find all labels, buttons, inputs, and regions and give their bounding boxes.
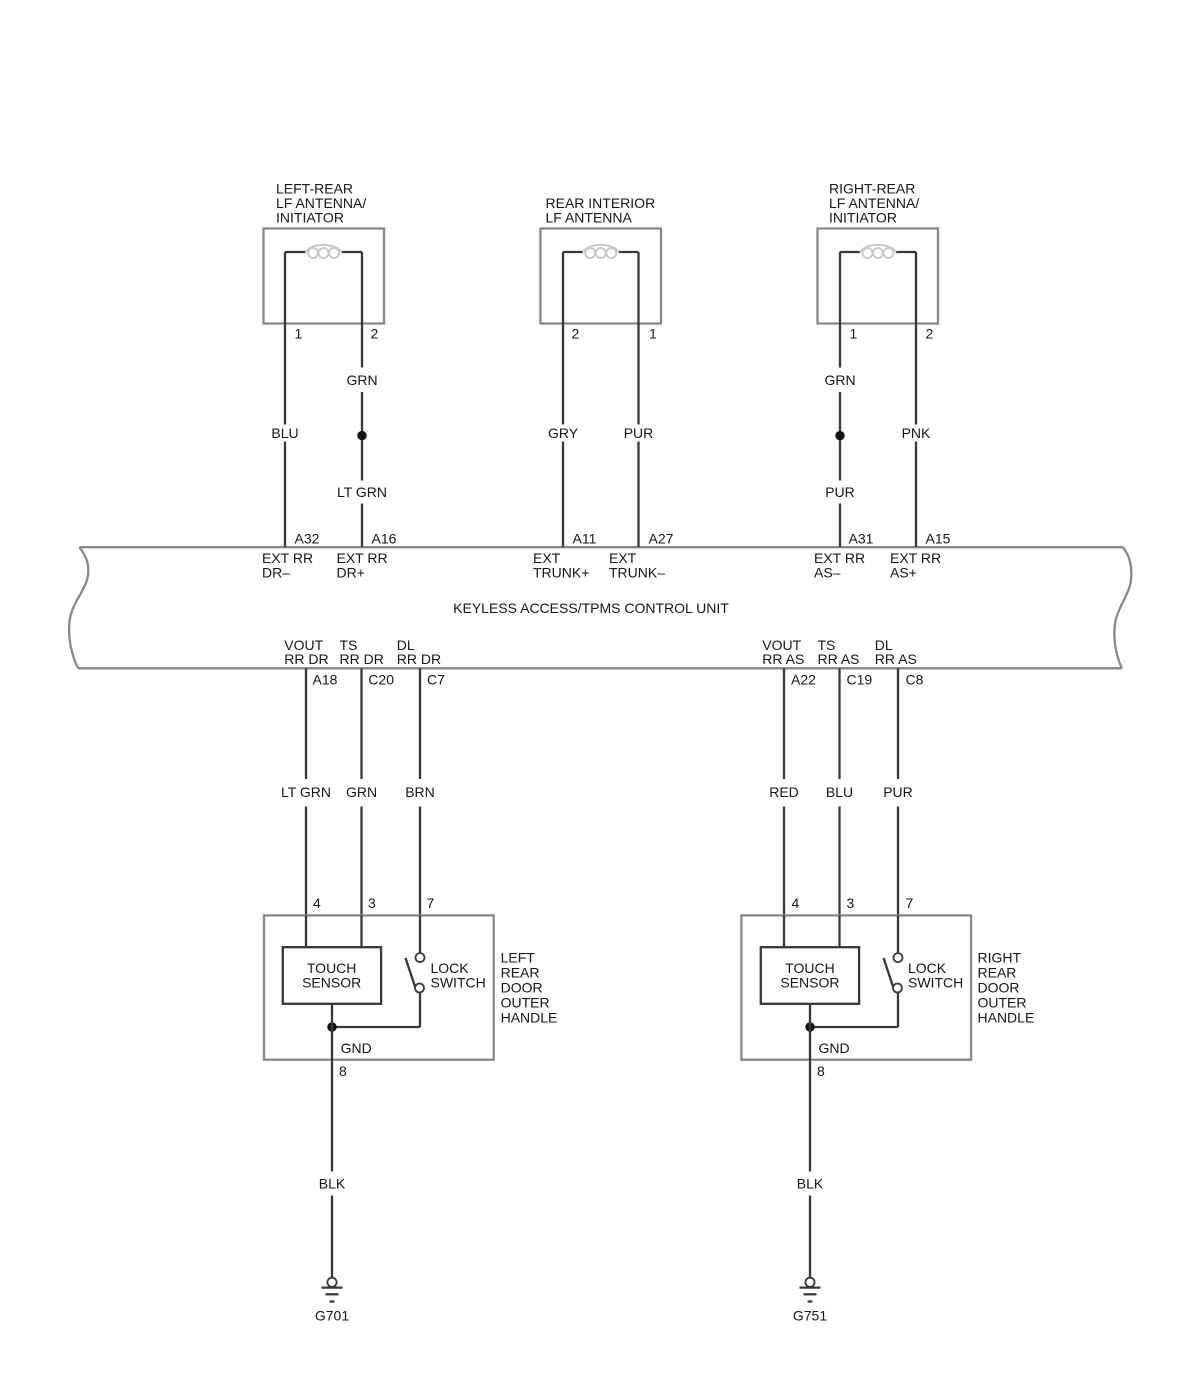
svg-text:C19: C19: [847, 672, 873, 688]
svg-text:BLK: BLK: [319, 1176, 346, 1192]
svg-text:PNK: PNK: [902, 425, 931, 441]
svg-text:AS+: AS+: [890, 565, 917, 581]
svg-text:1: 1: [295, 326, 303, 342]
svg-text:KEYLESS ACCESS/TPMS CONTROL UN: KEYLESS ACCESS/TPMS CONTROL UNIT: [453, 600, 729, 616]
svg-text:C8: C8: [906, 672, 924, 688]
svg-text:REAR: REAR: [501, 965, 540, 981]
svg-text:BLK: BLK: [797, 1176, 824, 1192]
svg-text:4: 4: [792, 895, 800, 911]
svg-text:RR DR: RR DR: [284, 651, 328, 667]
svg-text:SENSOR: SENSOR: [780, 975, 839, 991]
svg-text:DOOR: DOOR: [978, 980, 1020, 996]
svg-text:A11: A11: [573, 531, 597, 547]
svg-text:1: 1: [649, 326, 657, 342]
svg-text:A32: A32: [295, 531, 320, 547]
svg-text:HANDLE: HANDLE: [501, 1010, 558, 1026]
svg-text:4: 4: [313, 895, 321, 911]
svg-text:2: 2: [371, 326, 379, 342]
svg-text:RR AS: RR AS: [762, 651, 804, 667]
svg-text:SENSOR: SENSOR: [302, 975, 361, 991]
svg-text:GRN: GRN: [346, 372, 377, 388]
svg-text:OUTER: OUTER: [501, 995, 550, 1011]
svg-text:SWITCH: SWITCH: [431, 975, 486, 991]
svg-text:7: 7: [906, 895, 914, 911]
svg-text:A22: A22: [791, 672, 816, 688]
svg-text:BRN: BRN: [405, 784, 435, 800]
svg-text:C7: C7: [427, 672, 445, 688]
svg-text:A16: A16: [372, 531, 397, 547]
svg-text:A31: A31: [849, 531, 874, 547]
svg-text:8: 8: [817, 1063, 825, 1079]
svg-text:REAR: REAR: [978, 965, 1017, 981]
svg-text:PUR: PUR: [624, 425, 654, 441]
svg-text:LT GRN: LT GRN: [337, 484, 387, 500]
svg-text:PUR: PUR: [883, 784, 913, 800]
svg-text:RIGHT: RIGHT: [978, 950, 1022, 966]
svg-text:A18: A18: [313, 672, 338, 688]
svg-text:OUTER: OUTER: [978, 995, 1027, 1011]
svg-text:3: 3: [368, 895, 376, 911]
svg-text:PUR: PUR: [825, 484, 855, 500]
svg-text:LT GRN: LT GRN: [281, 784, 331, 800]
svg-text:DOOR: DOOR: [501, 980, 543, 996]
svg-text:INITIATOR: INITIATOR: [829, 210, 897, 226]
svg-text:GND: GND: [341, 1040, 372, 1056]
svg-text:G701: G701: [315, 1308, 349, 1324]
svg-text:1: 1: [850, 326, 858, 342]
svg-text:DR+: DR+: [337, 565, 365, 581]
svg-text:BLU: BLU: [271, 425, 298, 441]
svg-text:7: 7: [427, 895, 435, 911]
svg-text:LEFT: LEFT: [501, 950, 536, 966]
svg-text:GRN: GRN: [824, 372, 855, 388]
svg-text:TRUNK–: TRUNK–: [609, 565, 665, 581]
svg-text:RR AS: RR AS: [818, 651, 860, 667]
svg-text:TRUNK+: TRUNK+: [533, 565, 589, 581]
svg-text:HANDLE: HANDLE: [978, 1010, 1035, 1026]
svg-text:GRN: GRN: [346, 784, 377, 800]
svg-text:C20: C20: [368, 672, 394, 688]
svg-text:A15: A15: [926, 531, 951, 547]
svg-text:RED: RED: [769, 784, 799, 800]
svg-text:RR AS: RR AS: [875, 651, 917, 667]
svg-text:AS–: AS–: [814, 565, 841, 581]
svg-text:GND: GND: [819, 1040, 850, 1056]
svg-text:BLU: BLU: [826, 784, 853, 800]
svg-text:LF ANTENNA: LF ANTENNA: [546, 210, 633, 226]
svg-text:DR–: DR–: [262, 565, 290, 581]
svg-text:A27: A27: [649, 531, 674, 547]
svg-text:GRY: GRY: [548, 425, 579, 441]
svg-text:INITIATOR: INITIATOR: [276, 210, 344, 226]
svg-text:G751: G751: [793, 1308, 827, 1324]
svg-text:2: 2: [926, 326, 934, 342]
svg-text:RR DR: RR DR: [340, 651, 384, 667]
svg-text:RR DR: RR DR: [397, 651, 441, 667]
svg-text:2: 2: [572, 326, 580, 342]
svg-text:8: 8: [339, 1063, 347, 1079]
svg-text:SWITCH: SWITCH: [908, 975, 963, 991]
svg-text:3: 3: [847, 895, 855, 911]
